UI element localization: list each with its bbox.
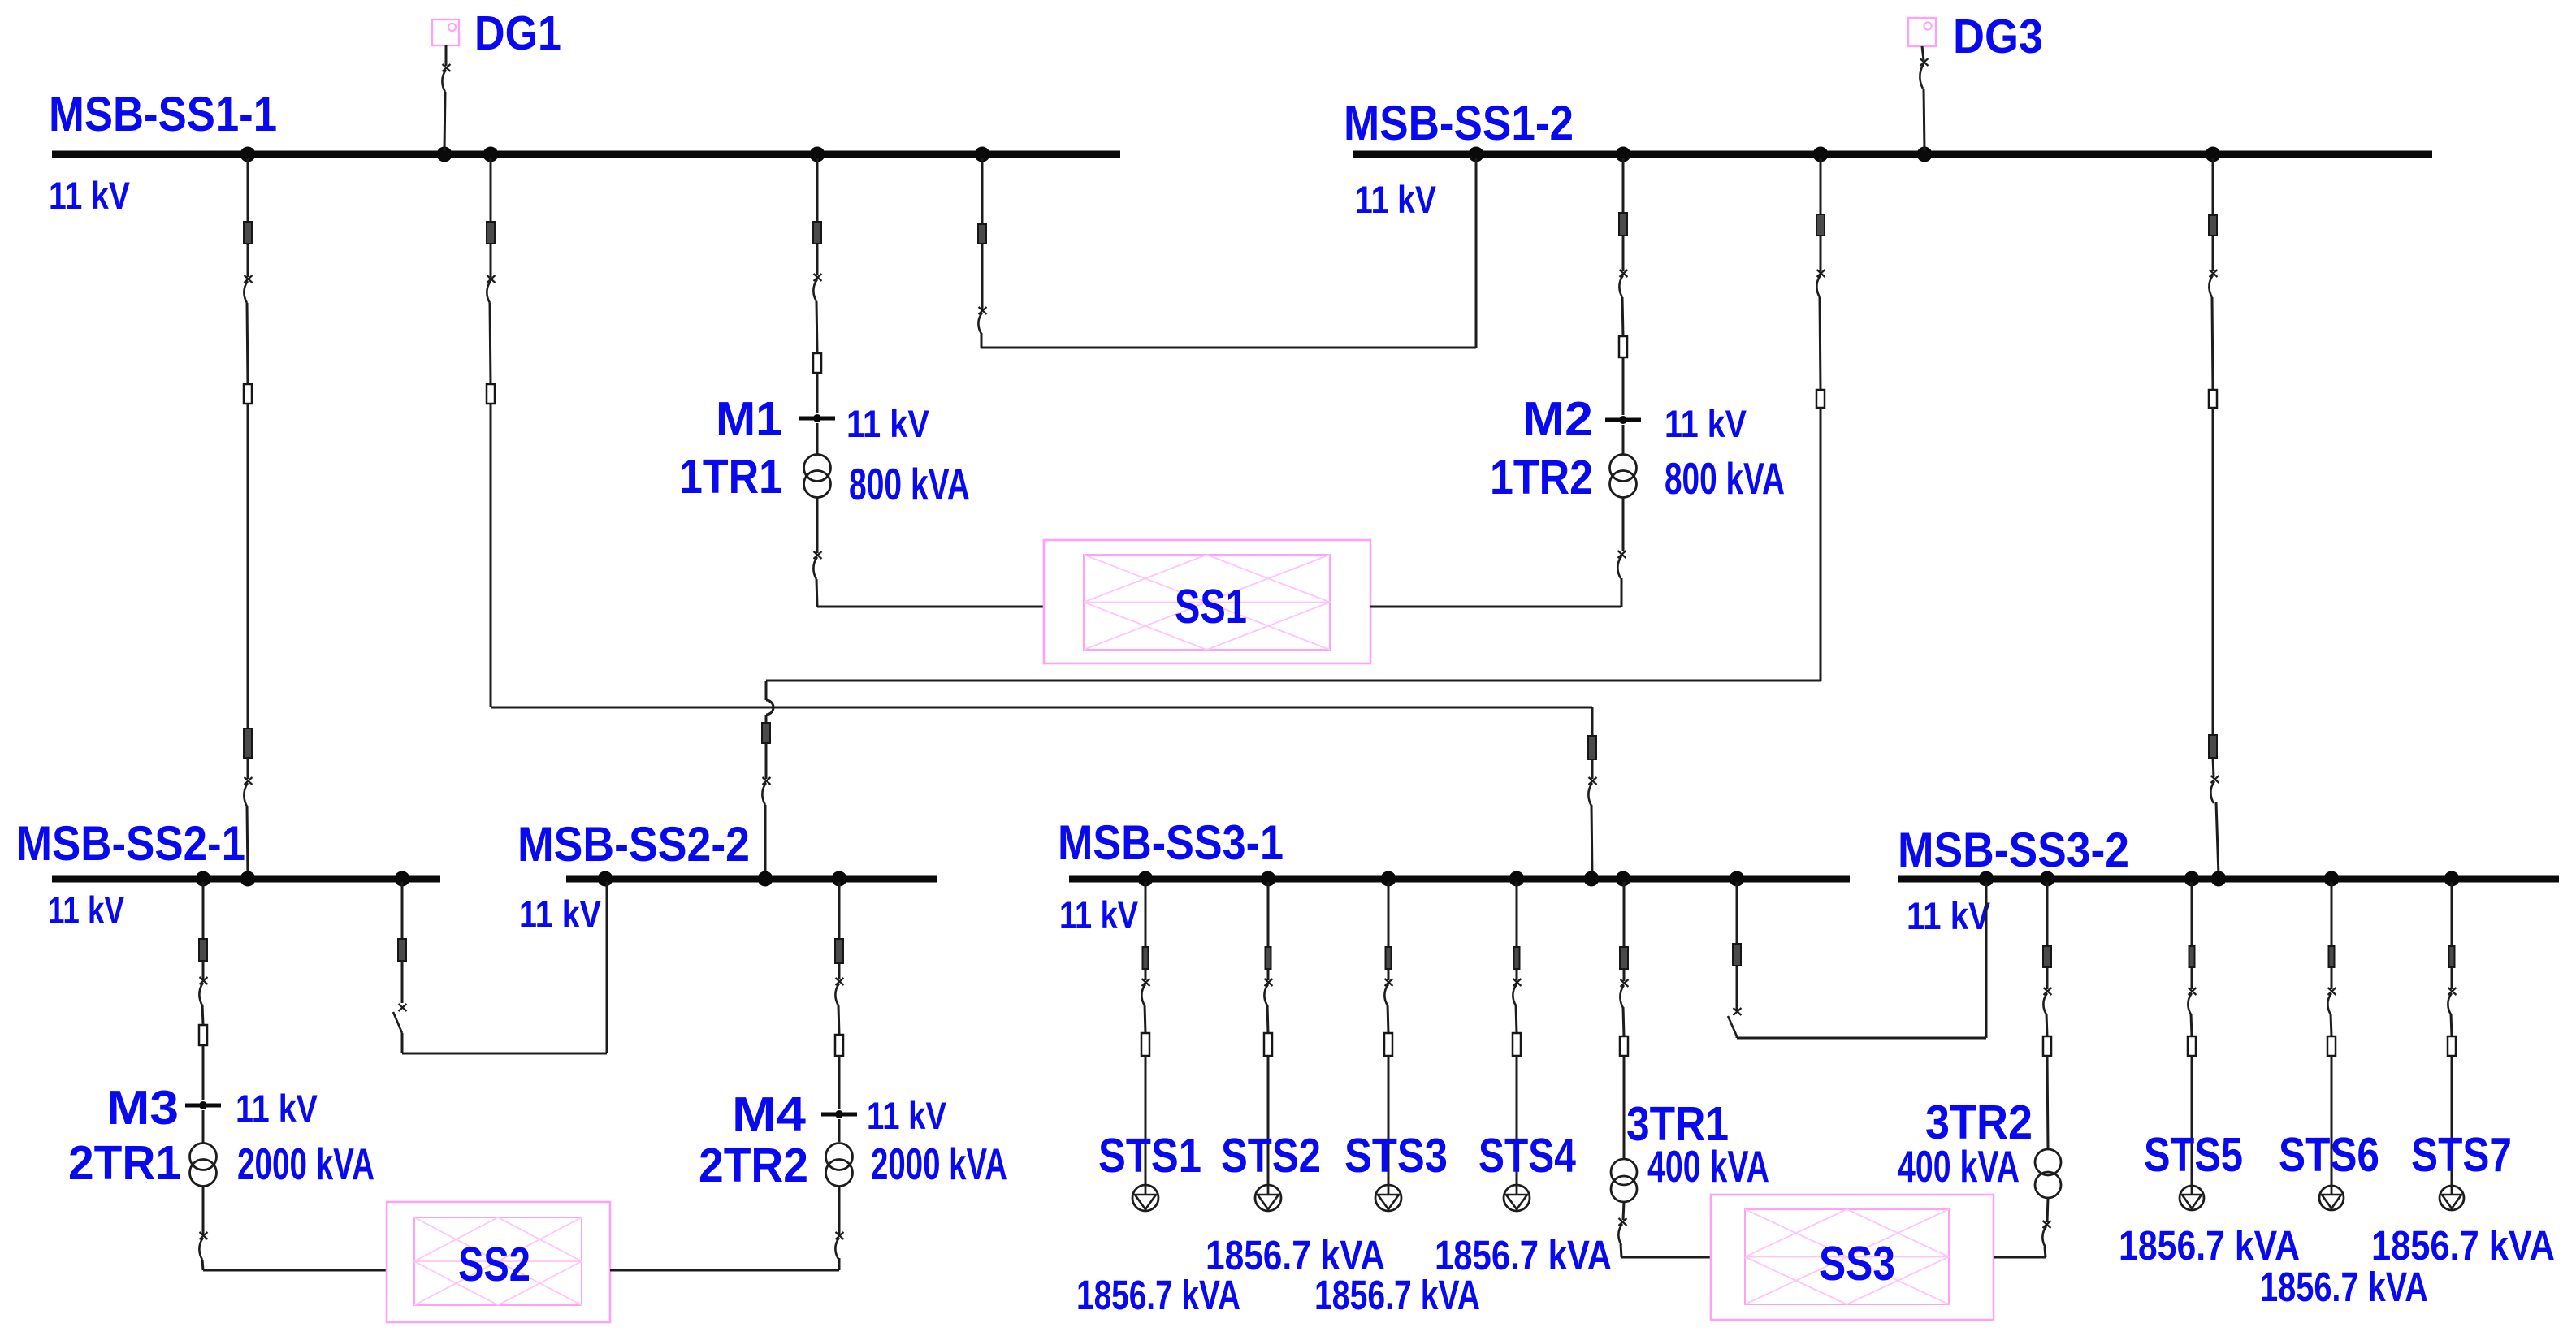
meter M1 <box>799 414 835 422</box>
svg-text:MSB-SS2-1: MSB-SS2-1 <box>16 816 245 871</box>
breaker CT feeder SS1-1/SS3-1 <box>487 222 495 244</box>
svg-text:11 kV: 11 kV <box>846 402 930 445</box>
wire feeder STS3 upper <box>1388 882 1390 947</box>
transformer 3TR2 <box>2035 1149 2061 1198</box>
wire <box>247 244 249 277</box>
load STS6 label <box>2279 1128 2379 1182</box>
switch feeder M4 <box>835 978 843 1005</box>
wire drop to load STS6 <box>2331 1056 2333 1186</box>
wire <box>202 1110 205 1144</box>
wire <box>2191 1014 2192 1036</box>
svg-text:1856.7 kVA: 1856.7 kVA <box>2119 1222 2300 1269</box>
wire drop to load STS7 <box>2451 1056 2453 1186</box>
wire tie bus coupler left <box>981 158 984 224</box>
meter M3 voltage 11 kV <box>236 1087 318 1130</box>
breaker CT feeder STS5 <box>2189 946 2195 967</box>
load block SS2 label <box>458 1238 530 1291</box>
junction on MSB-SS2-1 at x=305 <box>240 871 256 887</box>
svg-text:11 kV: 11 kV <box>236 1087 318 1130</box>
wire feeder M4 upper <box>838 882 841 939</box>
transformer 3TR2 label <box>1925 1096 2033 1149</box>
breaker CT feeder SS1-2/SS3-2 <box>2209 215 2217 236</box>
wire <box>247 758 249 779</box>
svg-text:M3: M3 <box>106 1081 179 1135</box>
wire SS1 right lead <box>1370 606 1621 608</box>
svg-text:STS5: STS5 <box>2144 1128 2243 1182</box>
svg-text:DG1: DG1 <box>474 6 561 60</box>
wire <box>2212 236 2214 271</box>
junction on MSB-SS3-1 at x=1867 <box>1509 871 1525 887</box>
wire drop to load STS3 <box>1388 1056 1390 1185</box>
switch feeder M2 <box>1619 270 1627 297</box>
switch 2TR1 to SS2 <box>199 1232 207 1260</box>
wire <box>2213 758 2214 777</box>
fuse feeder SS1-1/SS3-1 <box>487 384 495 404</box>
wire tie riser into MSB-SS3-2 <box>1985 882 1988 1038</box>
meter M3 <box>185 1101 221 1109</box>
fuse feeder M3 <box>199 1025 207 1045</box>
junction on MSB-SS3-2 at x=2731 <box>2211 871 2227 887</box>
load STS1 rating 1856.7 kVA <box>1076 1272 1240 1318</box>
wire <box>1622 357 1625 415</box>
svg-text:2TR1: 2TR1 <box>68 1136 181 1190</box>
wire <box>2331 967 2333 989</box>
meter M4 label <box>732 1087 806 1141</box>
fuse feeder SS1-2/SS3-2 <box>2209 390 2217 408</box>
wire drop to load STS4 <box>1516 1056 1518 1185</box>
generator DG1 <box>432 19 459 45</box>
wire <box>838 1119 841 1142</box>
wire <box>490 303 491 384</box>
node MSB-SS1-1 label <box>49 87 277 141</box>
wire <box>1623 969 1626 981</box>
wire 3TR1 to SS3 left lead <box>1621 1256 1711 1259</box>
wire <box>2045 1247 2046 1257</box>
switch feeder STS4 <box>1513 979 1521 1005</box>
wire <box>1736 1036 1738 1038</box>
busbar MSB-SS3-2 <box>1898 876 2559 883</box>
wire <box>2047 1056 2048 1149</box>
wire <box>838 963 841 979</box>
wire <box>816 423 819 455</box>
wire <box>1820 297 1821 390</box>
svg-text:400 kVA: 400 kVA <box>1898 1141 2020 1191</box>
switch feeder STS5 <box>2188 988 2196 1014</box>
breaker CT feeder M1 <box>813 222 821 244</box>
wire long drop to MSB-SS2-1 <box>247 404 249 729</box>
svg-text:1TR1: 1TR1 <box>679 450 782 504</box>
MSB-SS3-1 voltage label 11 kV <box>1059 893 1139 936</box>
svg-text:STS4: STS4 <box>1478 1129 1576 1183</box>
svg-text:STS2: STS2 <box>1221 1129 1321 1183</box>
node MSB-SS3-2 label <box>1898 823 2129 877</box>
breaker CT feeder STS7 <box>2449 946 2455 967</box>
node MSB-SS3-1 label <box>1058 815 1284 870</box>
load STS2 label <box>1221 1129 1321 1183</box>
junction on MSB-SS1-2 at x=2369 <box>1917 147 1933 162</box>
junction on MSB-SS3-1 at x=1561 <box>1261 871 1276 887</box>
switch feeder SS1-2/SS2-2 <box>1816 270 1825 297</box>
wire <box>2451 967 2453 989</box>
transformer 3TR2 rating 400 kVA <box>1898 1141 2020 1191</box>
wire tie SS2-1 to SS2-2 horizontal y=1297 <box>402 1053 607 1055</box>
transformer 1TR1 label <box>679 450 782 504</box>
load STS4 label <box>1478 1129 1576 1183</box>
breaker CT tie SS2-1/SS2-2 <box>398 939 406 961</box>
node MSB-SS2-2 label <box>517 817 750 871</box>
junction on MSB-SS1-2 at x=2241 <box>1813 147 1829 162</box>
wire <box>816 244 819 275</box>
wire drop to tie level <box>490 404 492 707</box>
wire feeder STS1 upper <box>1145 882 1147 947</box>
wire <box>1145 1005 1145 1033</box>
meter M2 <box>1605 416 1641 424</box>
junction on MSB-SS1-2 at x=1817 <box>1469 147 1484 162</box>
wire <box>202 1005 203 1025</box>
switch 3TR2 to SS3 <box>2042 1221 2050 1247</box>
breaker CT feeder M4 <box>835 939 843 963</box>
load STS5 rating 1856.7 kVA <box>2119 1222 2300 1269</box>
wire <box>981 333 983 348</box>
load STS5 label <box>2144 1128 2243 1182</box>
switch feeder STS2 <box>1264 979 1272 1005</box>
wire <box>1622 236 1625 271</box>
wire tie SS3-1 to SS3-2 horizontal y=1278 <box>1737 1037 1986 1040</box>
transformer 3TR1 <box>1611 1159 1637 1202</box>
MSB-SS3-2 voltage label 11 kV <box>1907 894 1991 937</box>
svg-text:11 kV: 11 kV <box>1665 402 1747 445</box>
fuse feeder STS3 <box>1384 1033 1392 1056</box>
breaker CT feeder 3TR1 <box>1620 947 1628 969</box>
svg-text:11 kV: 11 kV <box>48 889 125 932</box>
switch 2TR2 to SS2 <box>835 1232 843 1259</box>
switch feeder M3 <box>199 977 207 1005</box>
wire <box>981 244 984 309</box>
wire <box>2331 1014 2331 1036</box>
junction on MSB-SS2-2 at x=942 <box>758 871 773 887</box>
load STS4 pump symbol <box>1504 1185 1530 1211</box>
breaker CT feeder 3TR2 <box>2043 946 2051 967</box>
load STS7 label <box>2411 1128 2512 1182</box>
MSB-SS1-1 voltage label 11 kV <box>49 174 131 217</box>
wire into MSB-SS3-2 <box>2216 802 2219 876</box>
wire <box>1623 1056 1626 1160</box>
load block SS1 <box>1044 540 1370 664</box>
busbar MSB-SS3-1 <box>1069 876 1850 883</box>
transformer 1TR1 <box>804 455 831 498</box>
svg-text:SS2: SS2 <box>458 1238 530 1291</box>
wire DG3 to bus <box>1922 46 1924 60</box>
transformer 2TR1 <box>190 1144 217 1187</box>
wire feeder SS1-2/SS3-2 upper <box>2212 158 2214 215</box>
svg-text:11 kV: 11 kV <box>49 174 131 217</box>
load STS2 pump symbol <box>1255 1185 1281 1211</box>
junction on MSB-SS1-1 at x=305 <box>240 147 256 162</box>
switch feeder SS1-1/SS2-1 top <box>244 275 252 303</box>
wire feeder 3TR2 upper <box>2046 882 2049 946</box>
wire feeder STS5 upper <box>2191 882 2193 946</box>
switch DG1 <box>442 64 450 92</box>
breaker CT at MSB-SS3-1 end <box>1588 736 1596 759</box>
svg-text:SS1: SS1 <box>1175 580 1247 633</box>
svg-text:SS3: SS3 <box>1819 1237 1895 1291</box>
wire <box>401 961 404 1003</box>
wire SS2 right lead <box>610 1269 839 1272</box>
junction on MSB-SS2-2 at x=1033 <box>832 871 847 887</box>
wire <box>1516 969 1518 980</box>
svg-text:11 kV: 11 kV <box>867 1094 947 1137</box>
load STS1 pump symbol <box>1132 1185 1158 1211</box>
node MSB-SS2-1 label <box>16 816 245 871</box>
fuse feeder 3TR1 <box>1620 1036 1628 1056</box>
meter M4 <box>821 1110 857 1118</box>
switch at MSB-SS3-1 end <box>1588 777 1596 806</box>
load STS3 rating 1856.7 kVA <box>1314 1272 1480 1318</box>
junction on MSB-SS2-1 at x=495 <box>395 871 410 887</box>
breaker CT tie SS3-1/SS3-2 <box>1733 944 1741 966</box>
meter M4 voltage 11 kV <box>867 1094 947 1137</box>
svg-text:MSB-SS2-2: MSB-SS2-2 <box>517 817 750 871</box>
load STS7 rating 1856.7 kVA <box>2371 1222 2555 1269</box>
wire drop to tie level y=838 <box>1820 408 1822 681</box>
MSB-SS1-2 voltage label 11 kV <box>1355 178 1437 221</box>
busbar MSB-SS2-1 <box>52 876 440 883</box>
wire <box>2451 1014 2452 1036</box>
load block SS3 label <box>1819 1237 1895 1291</box>
wire <box>765 743 768 779</box>
wire feeder M1 upper <box>816 158 819 222</box>
wire <box>1145 969 1147 980</box>
breaker CT feeder STS3 <box>1386 947 1392 969</box>
wire <box>1820 236 1822 271</box>
wire <box>816 579 817 607</box>
breaker CT feeder SS1-2/SS2-2 <box>1816 214 1825 236</box>
wire 1TR1 to SS1 left lead <box>817 606 1044 608</box>
transformer 2TR1 label <box>68 1136 181 1190</box>
wire tie SS1-1 to SS1-2 horizontal y=428 <box>981 347 1476 349</box>
junction on MSB-SS1-1 at x=547 <box>437 147 452 162</box>
switch feeder SS1-2/SS3-2 top <box>2209 270 2217 297</box>
wire <box>2191 967 2193 989</box>
wire tie SS1-2 to SS2-2 horizontal y=838 <box>766 680 1821 682</box>
wire <box>202 1260 203 1270</box>
wire <box>1622 497 1625 551</box>
fuse feeder M2 <box>1619 336 1627 357</box>
meter M3 label <box>106 1081 179 1135</box>
svg-text:MSB-SS3-2: MSB-SS3-2 <box>1898 823 2129 877</box>
wire DG1 to bus <box>445 45 448 66</box>
junction on MSB-SS3-1 at x=1410 <box>1138 871 1154 887</box>
wire <box>838 1186 841 1234</box>
switch feeder STS6 <box>2327 988 2336 1014</box>
load block SS1 label <box>1175 580 1247 633</box>
wire <box>401 1033 404 1053</box>
wire drop to load STS2 <box>1267 1056 1270 1185</box>
switch feeder STS1 <box>1141 979 1149 1005</box>
fuse feeder M1 <box>813 353 821 373</box>
transformer 1TR2 label <box>1490 451 1593 504</box>
breaker CT at MSB-SS2-1 end <box>244 729 252 758</box>
wire <box>1622 425 1625 455</box>
wire <box>816 497 819 553</box>
svg-text:11 kV: 11 kV <box>1355 178 1437 221</box>
load STS7 pump symbol <box>2440 1186 2464 1210</box>
breaker CT bus coupler <box>978 224 986 244</box>
transformer 1TR1 rating 800 kVA <box>849 459 970 509</box>
wire <box>1621 578 1623 607</box>
wire <box>1388 1005 1388 1033</box>
junction on MSB-SS3-1 at x=1709 <box>1381 871 1396 887</box>
junction on MSB-SS3-1 at x=1998 <box>1616 871 1631 887</box>
wire tie riser into MSB-SS2-2 <box>606 882 608 1053</box>
svg-text:STS6: STS6 <box>2279 1128 2379 1182</box>
wire <box>838 1258 841 1270</box>
wire <box>1621 1244 1621 1257</box>
junction on MSB-SS3-2 at x=2870 <box>2324 871 2340 887</box>
svg-text:2000 kVA: 2000 kVA <box>871 1139 1007 1189</box>
wire <box>247 303 248 384</box>
fuse feeder STS4 <box>1513 1033 1521 1056</box>
junction on MSB-SS3-2 at x=3018 <box>2444 871 2460 887</box>
wire <box>816 301 817 353</box>
switch tie SS3-1/SS3-2 <box>1728 1008 1742 1036</box>
svg-text:11 kV: 11 kV <box>1059 893 1139 936</box>
load STS6 rating 1856.7 kVA <box>2260 1264 2428 1310</box>
wire 2TR1 to SS2 left lead <box>203 1269 387 1272</box>
wire <box>838 1005 839 1035</box>
load block SS2 <box>387 1202 610 1322</box>
wire feeder STS7 upper <box>2451 882 2453 946</box>
transformer 2TR2 label <box>699 1139 808 1192</box>
wire feeder STS6 upper <box>2331 882 2333 946</box>
svg-text:800 kVA: 800 kVA <box>849 459 970 509</box>
transformer 1TR2 <box>1610 455 1637 498</box>
MSB-SS2-1 voltage label 11 kV <box>48 889 125 932</box>
svg-text:2000 kVA: 2000 kVA <box>237 1139 374 1189</box>
switch feeder 3TR2 <box>2043 988 2051 1014</box>
switch bus coupler <box>978 307 986 334</box>
fuse feeder STS6 <box>2327 1036 2336 1056</box>
svg-text:STS1: STS1 <box>1098 1129 1201 1183</box>
junction on MSB-SS3-2 at x=2698 <box>2184 871 2200 887</box>
wire <box>2046 1014 2047 1036</box>
wire feeder SS1-1/SS2-1 upper <box>247 158 249 222</box>
load STS5 pump symbol <box>2180 1186 2204 1210</box>
wire feeder SS1-1/SS3-1 upper <box>490 158 492 222</box>
MSB-SS2-2 voltage label 11 kV <box>519 893 602 936</box>
svg-text:MSB-SS1-1: MSB-SS1-1 <box>49 87 277 141</box>
wire tie SS3-1 side <box>1736 882 1738 944</box>
busbar MSB-SS1-2 <box>1353 151 2432 158</box>
switch DG3 <box>1920 58 1928 89</box>
wire tie riser into MSB-SS1-2 <box>1475 158 1478 348</box>
fuse feeder STS1 <box>1141 1033 1149 1056</box>
switch 1TR1 to SS1 <box>813 551 821 579</box>
fuse feeder STS5 <box>2188 1036 2196 1056</box>
switch feeder SS1-1/SS3-1 top <box>487 275 495 303</box>
wire drop to load STS5 <box>2191 1056 2193 1186</box>
wire DG3 switch to MSB-SS1-2 <box>1924 89 1924 151</box>
transformer 1TR2 rating 800 kVA <box>1665 453 1785 504</box>
wire into MSB-SS3-1 <box>1591 805 1592 876</box>
breaker CT feeder STS6 <box>2329 946 2335 967</box>
load STS4 rating 1856.7 kVA <box>1435 1232 1612 1278</box>
wire <box>202 1186 205 1234</box>
wire <box>1736 966 1738 1010</box>
transformer 2TR2 rating 2000 kVA <box>871 1139 1007 1189</box>
svg-text:800 kVA: 800 kVA <box>1665 453 1785 504</box>
wire into MSB-SS2-1 <box>247 806 248 876</box>
junction on MSB-SS2-2 at x=745 <box>598 871 613 887</box>
node MSB-SS1-2 label <box>1344 96 1574 150</box>
wire feeder STS4 upper <box>1516 882 1518 947</box>
meter M2 voltage 11 kV <box>1665 402 1747 445</box>
wire <box>1267 1005 1268 1033</box>
junction on MSB-SS1-1 at x=1006 <box>810 147 825 162</box>
load STS3 pump symbol <box>1375 1185 1401 1211</box>
svg-text:1TR2: 1TR2 <box>1490 451 1593 504</box>
wire <box>1622 297 1623 336</box>
wire <box>1623 1202 1624 1220</box>
load STS3 label <box>1344 1129 1448 1183</box>
svg-text:1856.7 kVA: 1856.7 kVA <box>1314 1272 1480 1318</box>
wire <box>2047 1198 2048 1222</box>
wire <box>1623 1007 1624 1036</box>
busbar MSB-SS2-2 <box>566 876 937 883</box>
wire long drop to MSB-SS3-2 <box>2212 408 2214 735</box>
breaker CT feeder SS1-1/SS2-1 <box>244 222 252 244</box>
wire <box>1516 1005 1517 1033</box>
svg-text:STS7: STS7 <box>2411 1128 2512 1182</box>
wire feeder SS1-2/SS2-2 upper <box>1820 158 1822 214</box>
junction on MSB-SS3-1 at x=2138 <box>1730 871 1745 887</box>
wire drop to load STS1 <box>1145 1056 1147 1185</box>
wire tie SS2-1 side <box>401 882 404 939</box>
junction on MSB-SS2-1 at x=250 <box>196 871 211 887</box>
wire <box>2046 967 2049 989</box>
svg-text:M1: M1 <box>716 392 782 446</box>
svg-text:M4: M4 <box>732 1087 806 1141</box>
wire <box>1267 969 1270 980</box>
breaker CT at MSB-SS3-2 end <box>2209 735 2217 758</box>
switch 1TR2 to SS1 <box>1617 551 1626 578</box>
wire riser x=943 lower <box>765 715 768 723</box>
junction on MSB-SS3-2 at x=2445 <box>1979 871 1994 887</box>
fuse feeder SS1-2/SS2-2 <box>1816 390 1825 408</box>
breaker CT feeder M3 <box>199 939 207 961</box>
junction on MSB-SS1-2 at x=2724 <box>2206 147 2221 162</box>
load STS6 pump symbol <box>2319 1186 2344 1210</box>
switch at MSB-SS2-1 end <box>244 777 252 806</box>
junction on MSB-SS1-2 at x=1998 <box>1616 147 1631 162</box>
meter M1 label <box>716 392 782 446</box>
breaker CT feeder STS4 <box>1514 947 1520 969</box>
svg-text:400 kVA: 400 kVA <box>1647 1141 1769 1191</box>
transformer 2TR1 rating 2000 kVA <box>237 1139 374 1189</box>
switch 3TR1 to SS3 <box>1618 1218 1626 1245</box>
busbar MSB-SS1-1 <box>52 151 1120 158</box>
breaker CT feeder STS2 <box>1266 947 1271 969</box>
switch at MSB-SS3-2 end <box>2210 776 2219 803</box>
svg-text:1856.7 kVA: 1856.7 kVA <box>2260 1264 2428 1310</box>
svg-text:MSB-SS1-2: MSB-SS1-2 <box>1344 96 1574 150</box>
wire <box>202 961 205 979</box>
wire crossover hop at (943,871) <box>766 700 773 715</box>
load block SS3 <box>1711 1195 1994 1320</box>
wire tie SS1-1 to SS3-1 horizontal y=871 <box>491 707 1592 709</box>
svg-text:STS3: STS3 <box>1344 1129 1448 1183</box>
wire <box>1388 969 1390 980</box>
